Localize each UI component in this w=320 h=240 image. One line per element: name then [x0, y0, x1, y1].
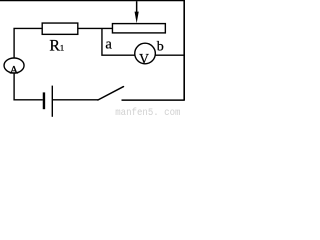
svg-text:1: 1	[60, 43, 64, 53]
svg-text:A: A	[10, 64, 19, 77]
svg-text:R: R	[49, 38, 60, 55]
svg-text:b: b	[157, 39, 164, 54]
svg-text:V: V	[139, 52, 149, 68]
svg-text:a: a	[105, 37, 112, 53]
svg-text:manfen5. com: manfen5. com	[115, 107, 180, 117]
